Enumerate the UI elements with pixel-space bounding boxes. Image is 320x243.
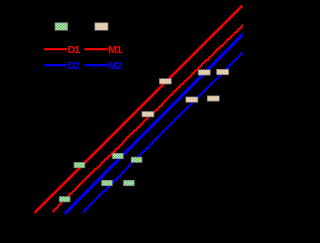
line M1 (red noisy)	[53, 25, 243, 211]
svg-text:M2: M2	[108, 60, 122, 72]
svg-text:M1: M1	[108, 44, 122, 56]
marker G6 (green hatched)	[131, 157, 142, 162]
marker W5 (wheat hatched)	[186, 97, 198, 102]
marker G5 (green hatched)	[113, 153, 124, 158]
marker W2 (wheat hatched)	[159, 79, 171, 84]
legend patch wheat	[95, 23, 108, 31]
marker G1 (green hatched)	[59, 197, 70, 202]
legend line D2	[44, 64, 67, 66]
marker W1 (wheat hatched)	[142, 112, 154, 117]
svg-text:D2: D2	[68, 60, 81, 72]
marker W6 (wheat hatched)	[207, 96, 219, 101]
marker W4 (wheat hatched)	[217, 69, 229, 74]
marker G4 (green hatched)	[74, 162, 85, 167]
line D2 (blue fit)	[66, 34, 243, 213]
legend line M2	[85, 64, 108, 66]
marker G3 (green hatched)	[124, 180, 135, 185]
marker G2 (green hatched)	[102, 180, 113, 185]
legend line D1	[44, 48, 67, 50]
legend patch green	[55, 23, 68, 31]
line D1 (red fit)	[35, 6, 241, 212]
line M2 (blue noisy)	[84, 53, 243, 212]
marker W3 (wheat hatched)	[198, 70, 210, 75]
svg-text:D1: D1	[68, 44, 81, 56]
legend line M1	[85, 48, 108, 50]
